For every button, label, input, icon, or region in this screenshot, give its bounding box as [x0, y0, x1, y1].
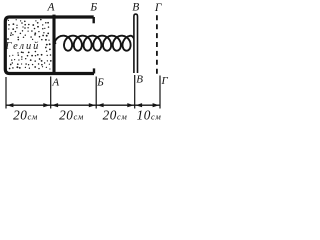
piston А — [52, 15, 55, 73]
flange lip at Б bottom — [93, 68, 95, 73]
arrowheads segment 4 — [136, 103, 143, 107]
svg-text:В: В — [136, 74, 143, 86]
dimension line — [6, 104, 160, 106]
helium gas dot texture — [7, 19, 52, 70]
svg-text:Гелий: Гелий — [5, 41, 41, 52]
arrowheads segment 3 — [97, 103, 104, 107]
svg-text:Б: Б — [89, 1, 97, 13]
svg-text:10см: 10см — [137, 108, 162, 123]
dimension tick at В — [134, 75, 136, 109]
flange lip at Б top — [92, 17, 94, 23]
piston В — [134, 14, 138, 73]
spring between piston А and piston В — [55, 36, 135, 51]
dimension tick at А — [50, 77, 52, 109]
svg-text:Б: Б — [96, 76, 104, 88]
svg-text:20см: 20см — [59, 108, 84, 123]
dimension tick at Б — [95, 77, 97, 109]
dimension tick at Г — [159, 76, 161, 109]
svg-text:В: В — [132, 1, 139, 13]
dimension tick at left wall — [5, 77, 7, 109]
svg-text:20см: 20см — [103, 108, 128, 123]
svg-text:Г: Г — [160, 75, 168, 87]
dashed position line at Г — [156, 15, 158, 74]
svg-text:Г: Г — [154, 2, 162, 14]
arrowheads segment 2 — [52, 103, 59, 107]
arrowheads segment 1 — [7, 103, 14, 107]
svg-text:20см: 20см — [13, 108, 38, 123]
svg-text:А: А — [46, 2, 55, 14]
cylinder body (left wall, top rail, bottom rail) — [5, 17, 94, 74]
svg-text:А: А — [51, 77, 59, 89]
